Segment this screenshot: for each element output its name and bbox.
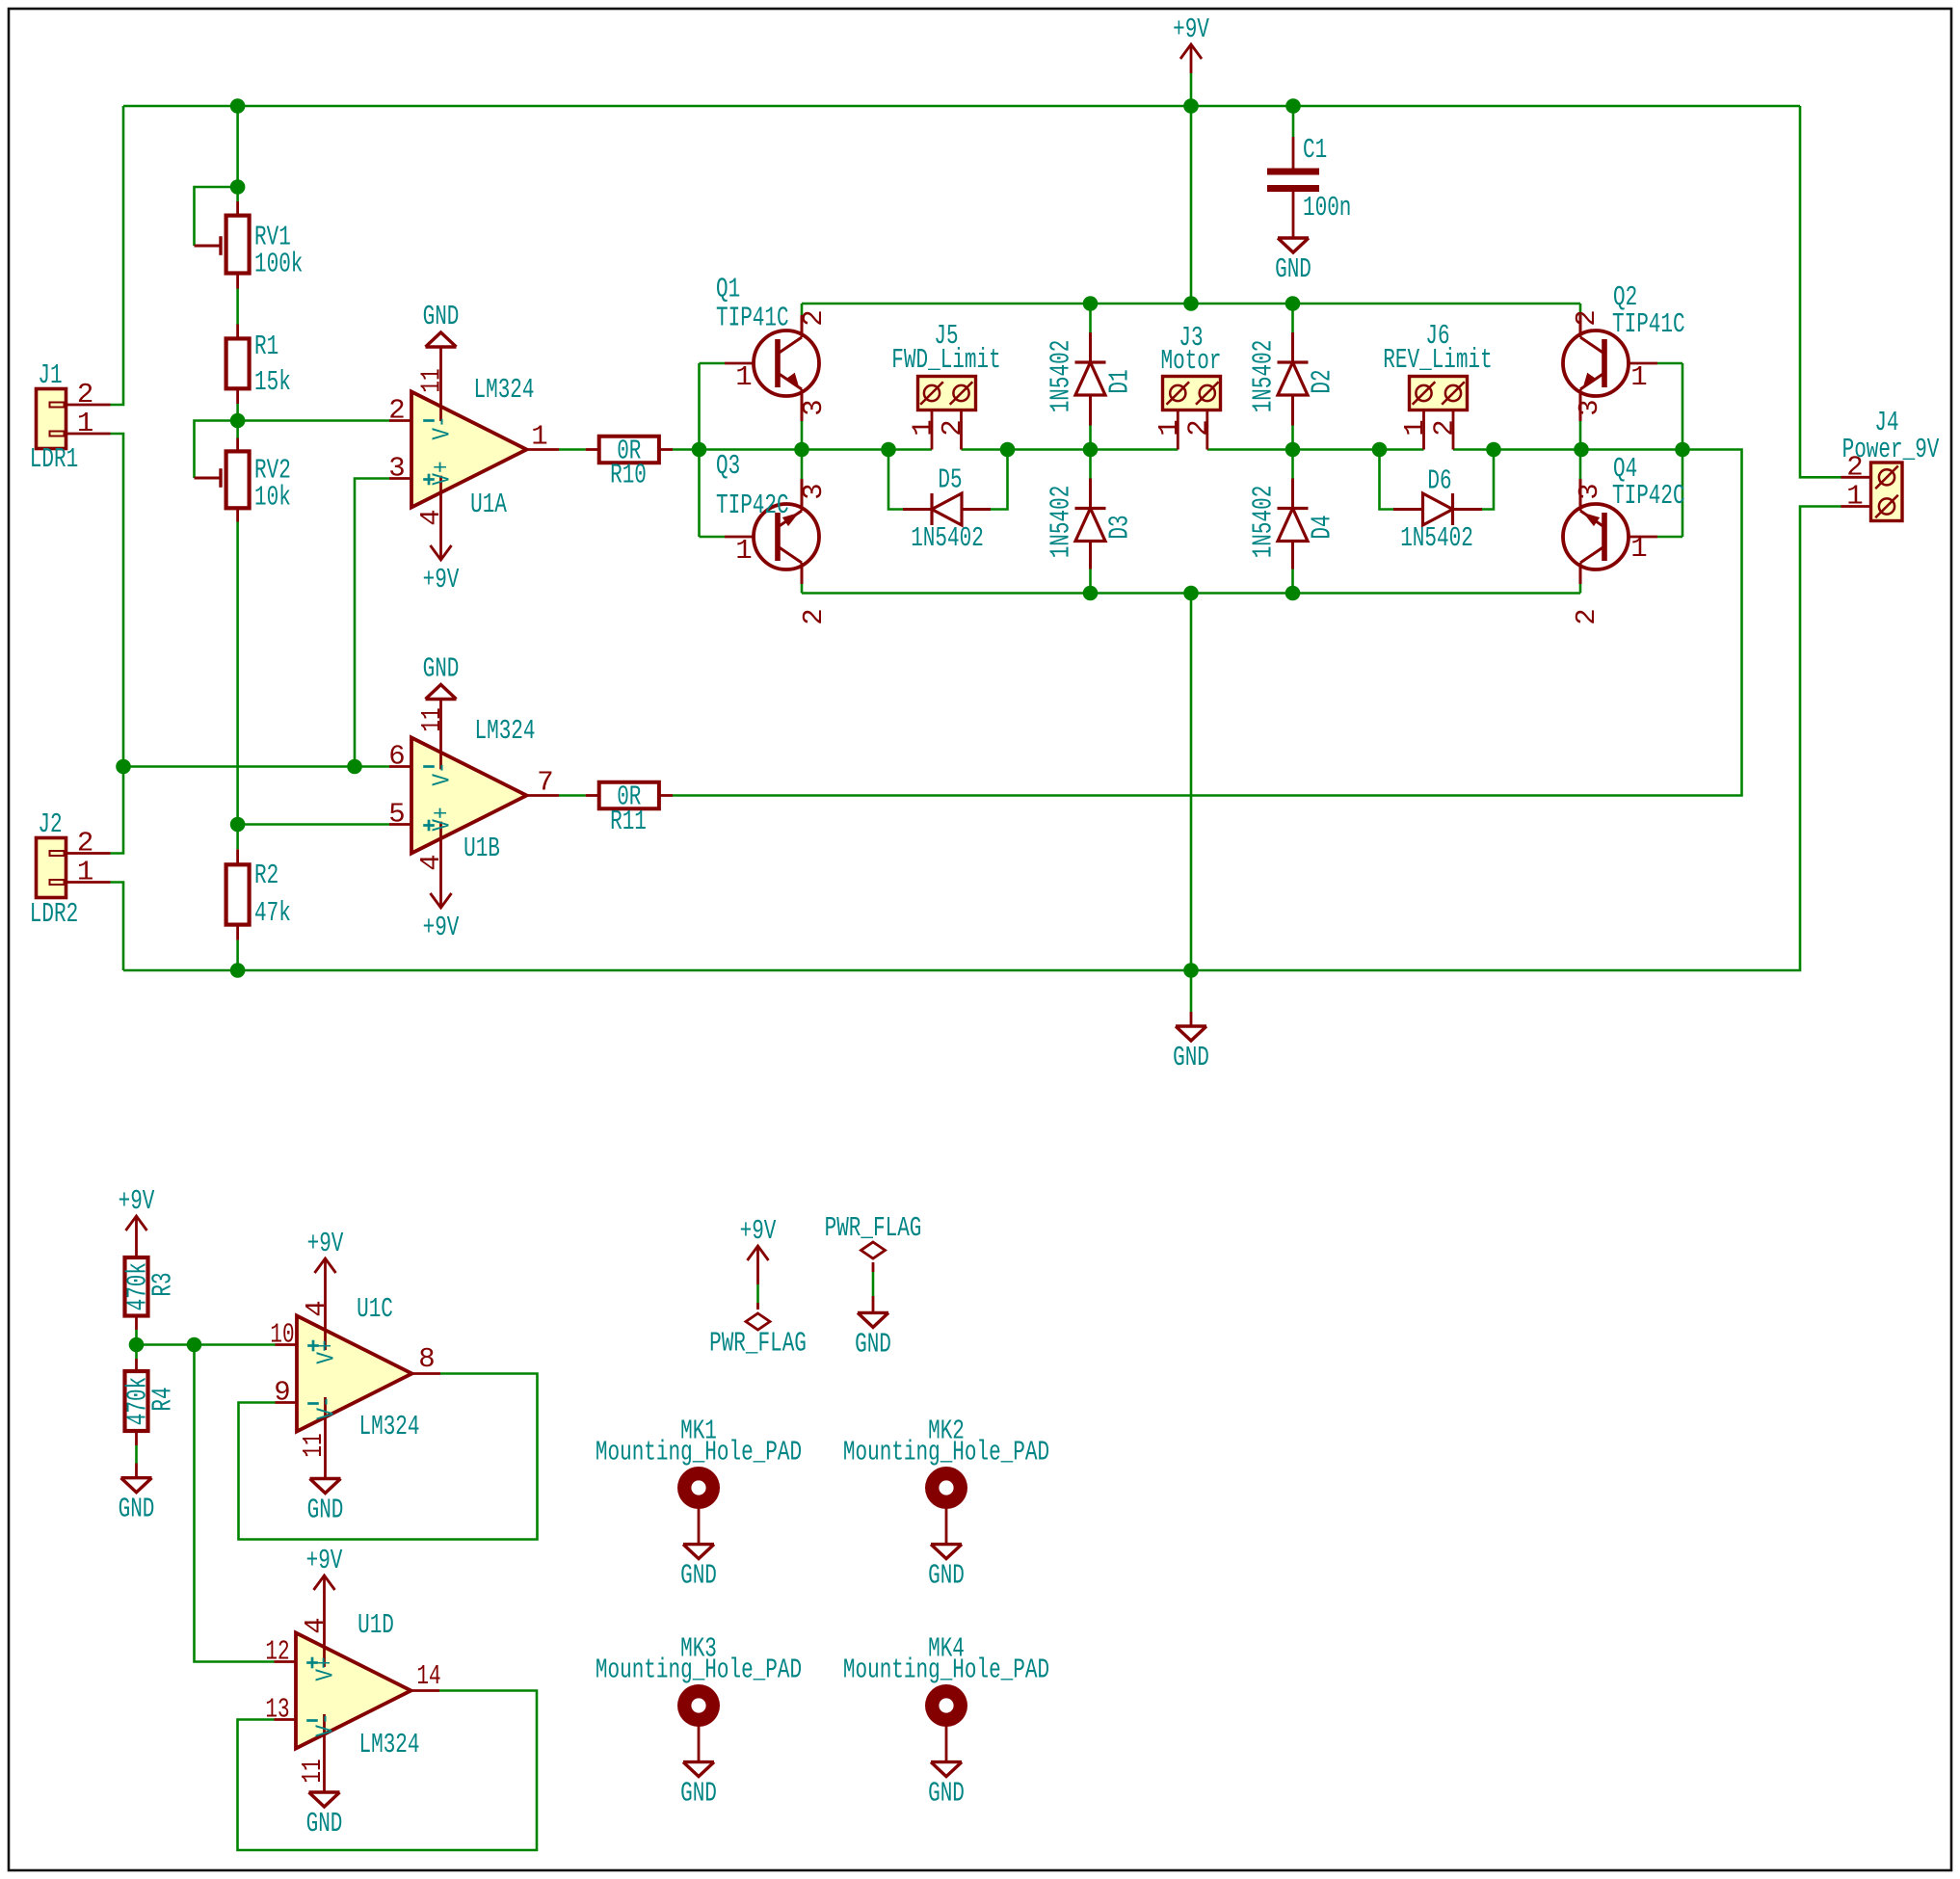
svg-text:3: 3 (1574, 399, 1605, 415)
transistor Q1 TIP41C (725, 362, 754, 365)
svg-text:GND: GND (1173, 1042, 1209, 1073)
ground GND at U1A pin11 (426, 345, 457, 348)
svg-text:1: 1 (1630, 533, 1647, 565)
svg-text:GND: GND (119, 1494, 155, 1525)
op-amp U1A (389, 419, 411, 422)
svg-text:11: 11 (416, 368, 448, 392)
connector J2 (LDR2) (37, 838, 66, 898)
svg-text:J1: J1 (38, 359, 62, 391)
junction mid rail at D6 left (1372, 442, 1388, 458)
power +9V at U1B pin4 (439, 894, 442, 908)
svg-text:1: 1 (77, 857, 93, 888)
svg-text:1N5402: 1N5402 (1248, 340, 1280, 413)
wire U1C feedback loop pin8 to pin9 (239, 1374, 538, 1540)
potentiometer RV2 (236, 438, 239, 452)
connector J6 REV_Limit (1410, 377, 1468, 410)
wire U1A output to R10 (559, 448, 586, 451)
wire J2 pin1 to GND rail (111, 883, 124, 971)
svg-text:R1: R1 (254, 331, 278, 362)
svg-text:GND: GND (928, 1560, 965, 1592)
wire +9V drop to H rail (1190, 106, 1193, 304)
svg-text:11: 11 (416, 707, 448, 731)
svg-text:4: 4 (415, 854, 447, 870)
resistor R2 (236, 849, 239, 864)
svg-text:2: 2 (77, 828, 93, 860)
junction mid rail at D5 left (881, 442, 896, 458)
wire GND symbol stub (1190, 970, 1193, 1012)
power symbol +9V top (1190, 44, 1193, 73)
diode D6 1N5402 (1393, 508, 1423, 511)
svg-text:D4: D4 (1307, 515, 1338, 539)
wire D6 bypass left (1380, 450, 1394, 510)
wire Q2/Q4 base column (1682, 363, 1684, 537)
ground GND at U1C pin11 (310, 1477, 341, 1480)
wire D5 bypass left (888, 450, 903, 510)
ground GND at PWR_FLAG (872, 1296, 875, 1312)
svg-text:V+: V+ (428, 461, 457, 485)
power +9V at U1A pin4 (439, 543, 442, 560)
svg-text:5: 5 (388, 799, 405, 831)
svg-text:D3: D3 (1104, 515, 1136, 539)
junction mid rail at D5 right (1000, 442, 1016, 458)
svg-text:100k: 100k (254, 249, 303, 280)
svg-text:+9V: +9V (740, 1215, 777, 1247)
transistor Q4 TIP42C (1629, 536, 1657, 539)
ground GND at C1 (1278, 236, 1309, 239)
svg-text:V+: V+ (428, 807, 457, 831)
svg-text:1: 1 (735, 535, 752, 567)
svg-text:GND: GND (855, 1328, 891, 1360)
svg-text:1: 1 (77, 408, 93, 439)
svg-text:Q1: Q1 (716, 274, 740, 305)
svg-text:2: 2 (1182, 419, 1214, 436)
wire +9V symbol to rail (1190, 73, 1193, 106)
svg-text:11: 11 (298, 1433, 330, 1457)
svg-text:J2: J2 (38, 808, 62, 840)
svg-text:LM324: LM324 (359, 1729, 420, 1760)
connector J5 FWD_Limit (918, 377, 976, 410)
svg-text:V-: V- (311, 1712, 340, 1736)
svg-text:+9V: +9V (119, 1185, 155, 1217)
wire R2 to GND rail (236, 940, 239, 970)
wire PWR_FLAG to GND (872, 1272, 875, 1296)
junction mid rail at D1/D3 (1083, 442, 1099, 458)
svg-text:LM324: LM324 (359, 1411, 420, 1442)
svg-text:PWR_FLAG: PWR_FLAG (825, 1212, 922, 1244)
svg-text:2: 2 (77, 379, 93, 410)
junction LDR1 node at U1B pin6 row (116, 759, 131, 775)
junction mid rail at Q2/Q4 bases (1675, 442, 1690, 458)
wire +9V rail left drop to J1 pin2 (111, 106, 124, 405)
svg-text:1N5402: 1N5402 (1046, 486, 1077, 559)
svg-text:+9V: +9V (423, 564, 460, 595)
wire U1D feedback loop pin14 to pin13 (238, 1691, 538, 1851)
wire R3-R4 node (135, 1330, 138, 1359)
power +9V at U1D pin4 (323, 1575, 326, 1594)
svg-text:47k: 47k (254, 897, 291, 929)
ground GND center (1190, 1012, 1193, 1026)
svg-text:4: 4 (415, 509, 447, 525)
svg-text:14: 14 (416, 1660, 440, 1692)
svg-text:U1A: U1A (470, 489, 507, 520)
wire branch down to U1D pin12 (195, 1345, 275, 1662)
svg-text:2: 2 (798, 608, 830, 624)
transistor Q2 TIP41C (1629, 362, 1657, 365)
wire D6 bypass right (1482, 450, 1494, 510)
svg-text:1: 1 (531, 421, 547, 453)
svg-text:2: 2 (937, 419, 968, 436)
svg-text:2: 2 (388, 395, 405, 427)
svg-text:1: 1 (1630, 361, 1647, 393)
junction top rail at divider (230, 98, 246, 114)
resistor R10 0R (586, 448, 599, 451)
junction mid rail at D6 right (1486, 442, 1501, 458)
svg-text:GND: GND (307, 1495, 344, 1526)
power +9V at PWR_FLAG (756, 1246, 759, 1273)
resistor R11 0R (586, 794, 599, 797)
wire J1 pin1 to U1B pin6 column and J2 pin2 (111, 434, 124, 854)
wire mid rail R10 to J5 pin1 (673, 448, 932, 451)
svg-text:V-: V- (428, 761, 457, 785)
transistor Q3 TIP42C (725, 536, 754, 539)
svg-text:R11: R11 (610, 806, 647, 837)
junction mid rail at Q2/Q4 emitters (1574, 442, 1589, 458)
wire D5 bypass right (991, 450, 1008, 510)
wire divider +9V to RV1 (236, 106, 239, 201)
wire RV2 wiper loop (195, 421, 238, 479)
svg-text:10: 10 (270, 1319, 294, 1351)
junction top H rail at D1 (1083, 296, 1099, 311)
svg-text:REV_Limit: REV_Limit (1383, 344, 1492, 376)
svg-text:10k: 10k (254, 482, 291, 514)
svg-text:R4: R4 (147, 1387, 179, 1411)
svg-text:Mounting_Hole_PAD: Mounting_Hole_PAD (596, 1437, 802, 1469)
wire mid rail J5 pin2 to J3 pin1 (962, 448, 1179, 451)
junction bottom H rail at GND drop (1183, 586, 1199, 601)
junction top rail at +9V (1183, 98, 1199, 114)
svg-text:+9V: +9V (423, 912, 460, 943)
svg-text:U1D: U1D (358, 1609, 394, 1641)
wire GND drop from H rail (1190, 594, 1193, 971)
svg-text:GND: GND (928, 1778, 965, 1810)
svg-text:GND: GND (1275, 253, 1311, 285)
svg-text:LDR2: LDR2 (30, 898, 78, 930)
svg-text:2: 2 (1429, 419, 1461, 436)
junction mid rail at D2/D4 (1285, 442, 1301, 458)
svg-text:+9V: +9V (306, 1545, 343, 1576)
wire RV2 to R2 (236, 522, 239, 850)
wire node to U1C pin10 (137, 1343, 276, 1346)
wire R4 to GND (135, 1445, 138, 1464)
svg-text:U1B: U1B (464, 833, 500, 864)
svg-text:TIP41C: TIP41C (716, 303, 789, 334)
wire U1B pin6 row (123, 765, 389, 768)
wire +9V to PWR_FLAG (756, 1273, 759, 1285)
diode D2 1N5402 (1291, 304, 1294, 332)
svg-text:V-: V- (428, 415, 457, 439)
junction top H rail at D2 (1285, 296, 1301, 311)
junction bottom H rail at D4 (1285, 586, 1301, 601)
svg-text:GND: GND (423, 301, 460, 332)
svg-text:2: 2 (798, 309, 830, 326)
svg-text:4: 4 (300, 1617, 331, 1633)
junction U1A pin3 at U1B pin6 row (347, 759, 362, 775)
junction at U1D branch (187, 1337, 202, 1353)
junction top rail at C1 (1285, 98, 1301, 114)
resistor R4 470k (135, 1359, 138, 1371)
svg-text:+9V: +9V (1173, 13, 1209, 45)
connector J4 Power_9V (1871, 463, 1903, 521)
diode D3 1N5402 (1089, 450, 1092, 479)
svg-text:Motor: Motor (1161, 345, 1222, 377)
wire C1 top (1292, 106, 1295, 137)
wire H-bridge bottom rail (802, 592, 1580, 595)
svg-text:R2: R2 (254, 860, 278, 891)
svg-text:TIP42C: TIP42C (1612, 480, 1685, 512)
svg-text:7: 7 (537, 767, 553, 799)
flag PWR_FLAG 1 (746, 1313, 770, 1330)
svg-text:1: 1 (735, 361, 752, 393)
svg-text:1: 1 (1846, 481, 1863, 513)
junction GND rail at center (1183, 963, 1199, 978)
wire U1B pin5 row (238, 823, 389, 826)
svg-text:3: 3 (798, 399, 830, 415)
wire RV1 to R1 (236, 289, 239, 325)
resistor R1 (236, 325, 239, 339)
svg-text:LDR1: LDR1 (30, 443, 78, 475)
svg-text:Q3: Q3 (716, 450, 740, 482)
connector J3 Motor (1163, 377, 1221, 410)
op-amp U1B (389, 765, 411, 768)
svg-text:1: 1 (1399, 419, 1431, 436)
svg-text:11: 11 (297, 1759, 329, 1783)
svg-text:D5: D5 (938, 464, 962, 496)
diode D4 1N5402 (1291, 450, 1294, 479)
svg-text:TIP42C: TIP42C (716, 490, 789, 521)
svg-text:6: 6 (388, 741, 405, 773)
svg-text:9: 9 (274, 1377, 290, 1409)
op-amp U1D (275, 1660, 297, 1663)
diode D1 1N5402 (1089, 304, 1092, 332)
svg-text:+9V: +9V (307, 1228, 344, 1259)
connector J1 (LDR1) (37, 389, 66, 449)
junction GND rail at R2 (230, 963, 246, 978)
wire RV1 wiper loop (195, 187, 238, 246)
svg-text:100n: 100n (1303, 192, 1351, 224)
wire U1A pin3 net to U1B pin6 row (355, 479, 389, 767)
svg-text:8: 8 (418, 1343, 435, 1375)
potentiometer RV1 (236, 201, 239, 216)
svg-text:D2: D2 (1307, 369, 1338, 393)
svg-text:12: 12 (265, 1636, 289, 1668)
svg-text:GND: GND (306, 1808, 343, 1839)
junction RV1 top (230, 179, 246, 195)
wire mid rail J3 pin2 to J6 pin1 (1207, 448, 1424, 451)
junction mid rail at Q1/Q3 emitters (794, 442, 809, 458)
svg-text:Mounting_Hole_PAD: Mounting_Hole_PAD (596, 1654, 802, 1686)
svg-text:C1: C1 (1303, 134, 1327, 166)
svg-text:TIP41C: TIP41C (1612, 308, 1685, 340)
svg-text:3: 3 (388, 453, 405, 485)
resistor R3 470k (135, 1236, 138, 1257)
wire Q1/Q3 base column (698, 363, 701, 537)
svg-text:FWD_Limit: FWD_Limit (891, 344, 1000, 376)
wire R1 to RV2 across junction (236, 404, 239, 438)
svg-text:LM324: LM324 (474, 374, 535, 406)
svg-text:3: 3 (1574, 483, 1605, 499)
svg-text:2: 2 (1571, 309, 1602, 326)
wire GND bottom rail (123, 507, 1841, 971)
power +9V at U1C pin4 (324, 1258, 327, 1279)
ground GND at U1B pin11 (426, 698, 457, 701)
svg-text:V+: V+ (312, 1339, 341, 1363)
svg-text:1: 1 (908, 419, 940, 436)
svg-text:Mounting_Hole_PAD: Mounting_Hole_PAD (843, 1437, 1049, 1469)
svg-text:D6: D6 (1427, 465, 1451, 497)
svg-text:R10: R10 (610, 460, 647, 491)
diode D5 1N5402 (903, 508, 932, 511)
svg-text:V-: V- (312, 1395, 341, 1419)
svg-text:1N5402: 1N5402 (1400, 522, 1473, 554)
ground GND at R4 (135, 1464, 138, 1478)
junction bottom H rail at D3 (1083, 586, 1099, 601)
ground GND at U1D pin11 (309, 1790, 340, 1793)
wire H-bridge top rail (802, 303, 1580, 305)
wire +9V top rail (123, 105, 1800, 108)
svg-text:Power_9V: Power_9V (1842, 434, 1940, 465)
svg-text:U1C: U1C (357, 1293, 393, 1325)
junction R2 top (U1B pin5 node) (230, 817, 246, 833)
svg-text:1: 1 (1153, 419, 1185, 436)
svg-text:15k: 15k (254, 366, 291, 398)
wire mid rail J6 pin2 to R11 riser (673, 450, 1742, 796)
wire U1B output to R11 (559, 794, 586, 797)
junction R3/R4 node (129, 1337, 145, 1353)
junction divider mid (U1A pin2 node) (230, 413, 246, 429)
junction top H rail at +9V drop (1183, 296, 1199, 311)
svg-text:GND: GND (680, 1560, 717, 1592)
svg-text:Mounting_Hole_PAD: Mounting_Hole_PAD (843, 1654, 1049, 1686)
svg-text:GND: GND (423, 653, 460, 685)
capacitor C1 (1292, 137, 1295, 169)
svg-text:1N5402: 1N5402 (911, 522, 984, 554)
svg-text:GND: GND (680, 1778, 717, 1810)
svg-text:D1: D1 (1104, 369, 1136, 393)
wire +9V rail right drop to J4 pin2 (1800, 106, 1841, 477)
svg-text:V+: V+ (311, 1656, 340, 1681)
svg-text:LM324: LM324 (475, 715, 536, 747)
wire U1A pin2 row (238, 419, 389, 422)
svg-text:1N5402: 1N5402 (1046, 340, 1077, 413)
svg-text:R3: R3 (147, 1272, 179, 1296)
svg-text:2: 2 (1571, 608, 1602, 624)
svg-text:1N5402: 1N5402 (1248, 486, 1280, 559)
junction mid rail at R10/Q bases (692, 442, 707, 458)
op-amp U1C (276, 1343, 298, 1346)
power +9V at R3 (135, 1216, 138, 1236)
svg-text:4: 4 (301, 1300, 332, 1316)
svg-text:PWR_FLAG: PWR_FLAG (709, 1328, 807, 1360)
svg-text:3: 3 (798, 483, 830, 499)
